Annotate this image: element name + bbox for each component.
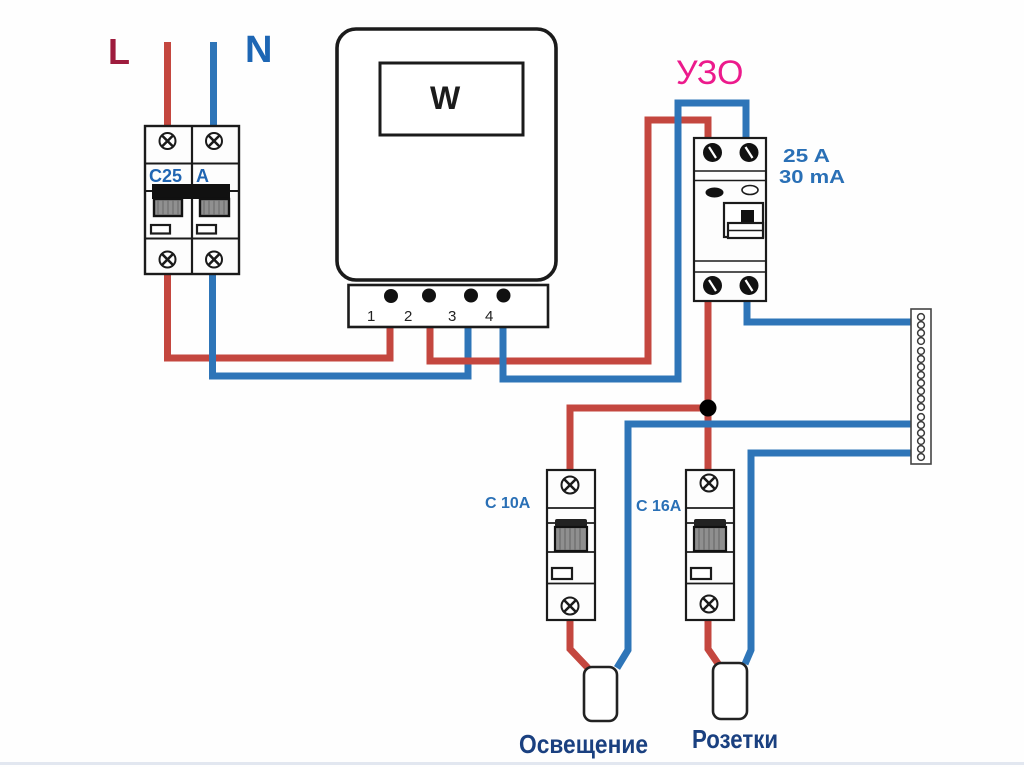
screw C16A bottom: [701, 596, 718, 613]
wire C10A to lamp: [570, 618, 588, 668]
terminal dot 1: [384, 289, 398, 303]
terminal dot 4: [497, 289, 511, 303]
svg-text:W: W: [430, 80, 461, 116]
wire socket neutral to busbar: [745, 453, 911, 664]
screw QF1 bottom-left: [160, 252, 176, 268]
svg-text:Освещение: Освещение: [519, 729, 648, 759]
screw QF1 top-right: [206, 133, 222, 149]
wire lamp neutral to busbar: [617, 424, 911, 668]
wire N supply: [210, 42, 217, 128]
circuit breaker C16A: [686, 470, 734, 620]
svg-text:25 A: 25 A: [783, 146, 830, 166]
svg-text:C 16A: C 16A: [636, 498, 682, 515]
terminal dot 2: [422, 289, 436, 303]
N busbar: [911, 309, 931, 464]
svg-text:2: 2: [404, 308, 412, 325]
svg-text:C 10A: C 10A: [485, 495, 531, 512]
RCD УЗО device: [694, 138, 766, 301]
screw C16A top: [701, 475, 718, 492]
RCD terminal bottom-right: [740, 276, 759, 295]
wire branch junction to C10A: [570, 408, 712, 470]
wire meter terminal 2 to RCD line input: [430, 120, 708, 361]
svg-text:A: A: [196, 166, 209, 186]
RCD indicator window: [742, 186, 758, 195]
svg-text:30 mA: 30 mA: [779, 167, 845, 187]
RCD terminal top-left: [703, 143, 722, 162]
svg-text:C25: C25: [149, 166, 182, 186]
wire RCD line out to junction and C16A: [705, 300, 712, 470]
bottom page edge: [0, 762, 1024, 765]
circuit breaker C10A: [547, 470, 595, 620]
svg-text:N: N: [245, 29, 272, 71]
svg-text:4: 4: [485, 308, 493, 325]
wire RCD neutral out to N busbar: [747, 300, 911, 322]
svg-text:Розетки: Розетки: [692, 724, 778, 754]
svg-text:3: 3: [448, 308, 456, 325]
wire L breaker to meter terminal 1: [168, 272, 391, 358]
screw QF1 bottom-right: [206, 252, 222, 268]
lamp load box: [584, 667, 617, 721]
socket load box: [713, 663, 747, 719]
svg-text:1: 1: [367, 308, 375, 325]
screw C10A top: [562, 477, 579, 494]
svg-text:L: L: [108, 31, 130, 72]
wire C16A to socket: [708, 618, 719, 665]
junction node: [700, 400, 717, 417]
circuit breaker QF1 C25A two-pole: [145, 126, 239, 274]
screw QF1 top-left: [160, 133, 176, 149]
RCD terminal bottom-left: [703, 276, 722, 295]
RCD brand oval: [706, 188, 724, 198]
wire meter terminal 4 to RCD neutral input: [503, 103, 746, 379]
RCD toggle handle: [728, 223, 763, 238]
RCD terminal top-right: [740, 143, 759, 162]
meter terminal block: [349, 285, 549, 327]
terminal dot 3: [464, 289, 478, 303]
screw C10A bottom: [562, 598, 579, 615]
RCD test button frame: [724, 203, 763, 237]
wire L supply: [164, 42, 171, 128]
wire N breaker to meter terminal 3: [213, 272, 469, 376]
svg-text:УЗО: УЗО: [676, 54, 743, 92]
electricity meter W: [337, 29, 556, 280]
